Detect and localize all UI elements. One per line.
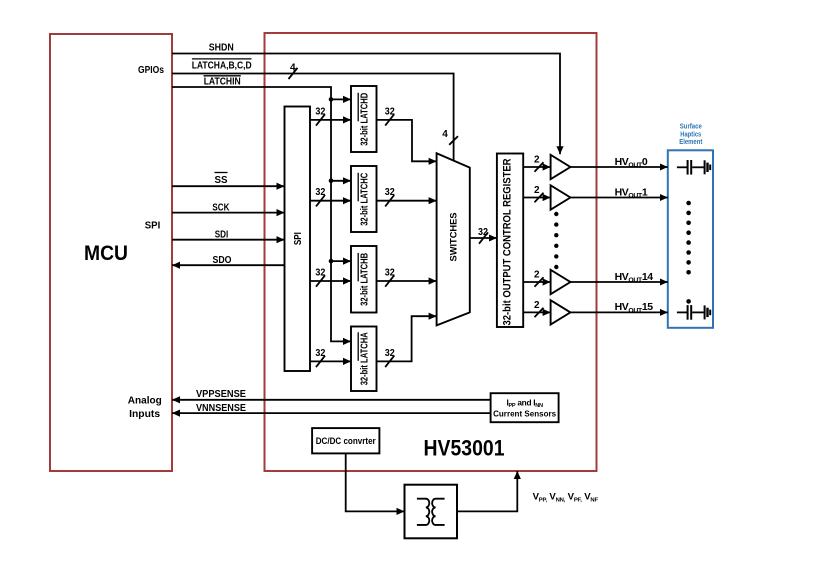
svg-text:2: 2 bbox=[534, 269, 540, 280]
svg-text:32-bit LATCHA: 32-bit LATCHA bbox=[358, 332, 370, 385]
svg-text:4: 4 bbox=[290, 62, 296, 73]
svg-text:DC/DC convrter: DC/DC convrter bbox=[316, 436, 376, 446]
svg-text:32: 32 bbox=[385, 267, 395, 278]
svg-text:32: 32 bbox=[315, 106, 325, 117]
svg-text:Element: Element bbox=[679, 139, 703, 146]
svg-text:32: 32 bbox=[315, 187, 325, 198]
svg-text:32: 32 bbox=[315, 267, 325, 278]
svg-text:VPPSENSE: VPPSENSE bbox=[196, 389, 246, 400]
svg-text:Surface: Surface bbox=[680, 124, 702, 131]
svg-text:Haptics: Haptics bbox=[680, 132, 701, 139]
svg-text:32: 32 bbox=[385, 348, 395, 359]
svg-text:LATCHA,B,C,D: LATCHA,B,C,D bbox=[192, 61, 252, 72]
svg-text:SS: SS bbox=[215, 175, 228, 186]
svg-text:2: 2 bbox=[534, 300, 540, 311]
svg-text:2: 2 bbox=[534, 185, 540, 196]
svg-text:32-bit OUTPUT CONTROL REGISTER: 32-bit OUTPUT CONTROL REGISTER bbox=[502, 158, 514, 325]
svg-text:VNNSENSE: VNNSENSE bbox=[196, 403, 246, 414]
svg-text:GPIOs: GPIOs bbox=[138, 65, 164, 76]
svg-text:32-bit LATCHD: 32-bit LATCHD bbox=[358, 93, 370, 146]
svg-text:SDO: SDO bbox=[213, 255, 232, 266]
svg-text:SHDN: SHDN bbox=[209, 43, 234, 54]
svg-text:32: 32 bbox=[385, 106, 395, 117]
svg-text:32: 32 bbox=[385, 187, 395, 198]
svg-text:MCU: MCU bbox=[84, 242, 128, 265]
svg-text:SDI: SDI bbox=[215, 230, 229, 241]
svg-text:32: 32 bbox=[478, 227, 488, 238]
svg-text:Analog: Analog bbox=[128, 396, 162, 407]
svg-text:SPI: SPI bbox=[293, 232, 304, 245]
svg-text:2: 2 bbox=[534, 154, 540, 165]
svg-text:HV53001: HV53001 bbox=[424, 436, 505, 461]
svg-text:SPI: SPI bbox=[145, 221, 161, 232]
svg-text:32: 32 bbox=[315, 348, 325, 359]
svg-text:Current Sensors: Current Sensors bbox=[493, 409, 556, 419]
svg-text:Inputs: Inputs bbox=[129, 409, 160, 420]
svg-text:SWITCHES: SWITCHES bbox=[449, 213, 459, 262]
svg-text:4: 4 bbox=[442, 129, 448, 140]
svg-text:LATCHIN: LATCHIN bbox=[204, 77, 241, 88]
svg-text:32-bit LATCHB: 32-bit LATCHB bbox=[358, 253, 370, 306]
svg-text:32-bit LATCHC: 32-bit LATCHC bbox=[358, 173, 370, 226]
svg-text:SCK: SCK bbox=[212, 203, 230, 214]
